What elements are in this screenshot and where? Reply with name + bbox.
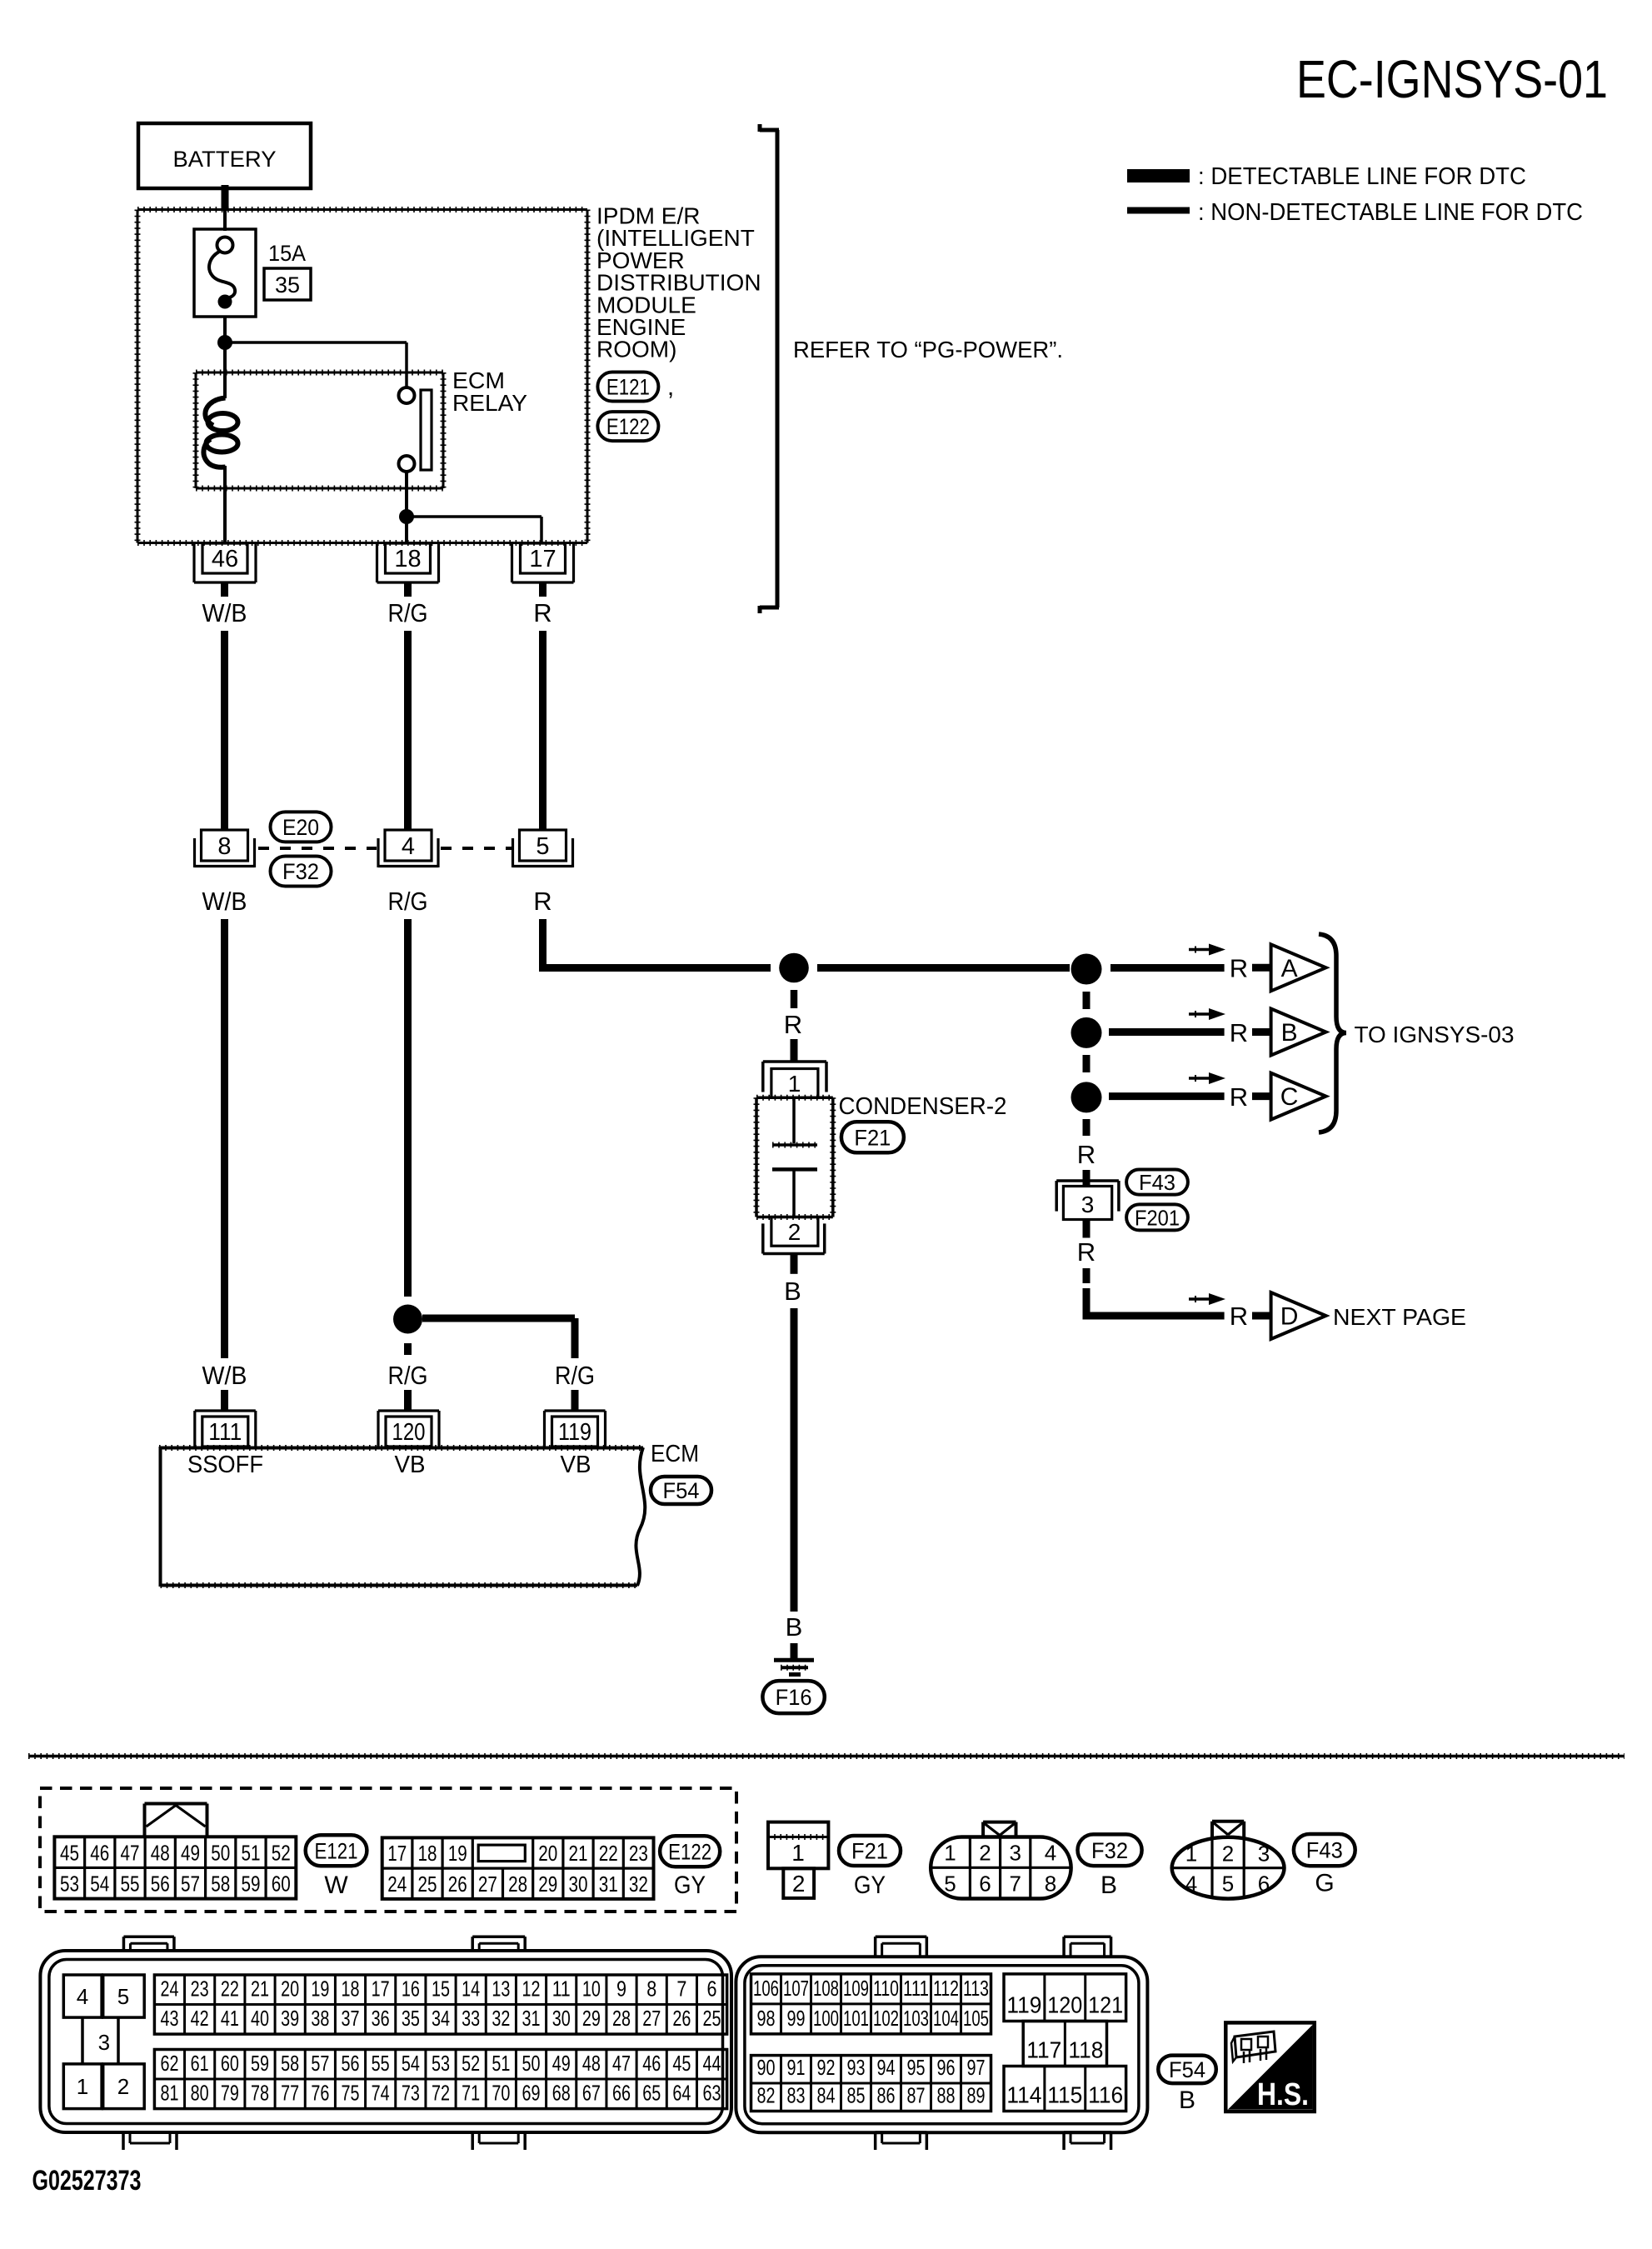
- svg-text:R: R: [533, 598, 551, 627]
- svg-text:47: 47: [121, 1840, 140, 1865]
- svg-text:26: 26: [672, 2006, 691, 2031]
- svg-text:B: B: [1281, 1019, 1298, 1047]
- connector face F43: [1172, 1822, 1285, 1899]
- svg-text:101: 101: [843, 2006, 869, 2031]
- junction at relay output: [399, 509, 414, 524]
- svg-text:41: 41: [221, 2006, 239, 2031]
- label SSOFF: [187, 1452, 263, 1478]
- svg-text:14: 14: [462, 1977, 480, 2002]
- svg-text:66: 66: [612, 2081, 631, 2106]
- svg-text:1: 1: [77, 2074, 88, 2099]
- svg-text:R: R: [1230, 954, 1248, 983]
- ground ref F16 oval: [762, 1681, 824, 1713]
- svg-text:61: 61: [191, 2051, 209, 2076]
- svg-text:48: 48: [151, 1840, 170, 1865]
- arrow to B: [1189, 1008, 1225, 1020]
- wire stub to pin 120: [404, 1390, 412, 1412]
- svg-text:63: 63: [703, 2081, 721, 2106]
- svg-text:60: 60: [221, 2051, 239, 2076]
- svg-text:R: R: [1230, 1018, 1248, 1047]
- svg-text:VB: VB: [561, 1452, 591, 1478]
- svg-text:F21: F21: [851, 1839, 888, 1864]
- svg-text:G: G: [1315, 1870, 1334, 1897]
- svg-text:119: 119: [1006, 1992, 1041, 2018]
- svg-text:98: 98: [757, 2006, 776, 2031]
- svg-text:65: 65: [642, 2081, 661, 2106]
- svg-text:F54: F54: [1169, 2057, 1205, 2082]
- separator line: [28, 1755, 1625, 1758]
- svg-text:3: 3: [98, 2030, 110, 2055]
- svg-text:4: 4: [1045, 1840, 1056, 1865]
- svg-text:1: 1: [791, 1840, 805, 1866]
- IPDM E/R label text: [596, 203, 761, 362]
- label R at B: [1230, 1018, 1248, 1047]
- svg-text:45: 45: [672, 2051, 691, 2076]
- label GY (F21 color): [854, 1872, 886, 1899]
- svg-text:12: 12: [522, 1977, 541, 2002]
- label R above condenser: [784, 1010, 802, 1039]
- svg-text:46: 46: [212, 546, 238, 572]
- fuse 15A 35: [194, 229, 256, 317]
- svg-text:ECM: ECM: [651, 1441, 699, 1467]
- svg-text:18: 18: [394, 546, 421, 572]
- IPDM E/R box E121/E122: [137, 210, 587, 543]
- svg-text:SSOFF: SSOFF: [187, 1452, 263, 1478]
- connector ref E20 oval: [271, 812, 332, 842]
- wire fuse to junction: [223, 317, 227, 342]
- svg-text:102: 102: [873, 2006, 899, 2031]
- connector E20/F32 pin 8: [195, 830, 255, 867]
- svg-text:53: 53: [432, 2051, 450, 2076]
- IPDM pin 46: [194, 543, 256, 582]
- svg-text:GY: GY: [674, 1872, 706, 1899]
- battery: [138, 123, 311, 188]
- svg-text:93: 93: [847, 2055, 866, 2080]
- svg-text:103: 103: [903, 2006, 929, 2031]
- svg-text:1: 1: [1185, 1842, 1197, 1867]
- svg-text:8: 8: [217, 833, 231, 860]
- svg-text:21: 21: [569, 1841, 588, 1866]
- label B (F32 color): [1101, 1872, 1117, 1899]
- svg-text:29: 29: [582, 2006, 601, 2031]
- dashed connector linkage: [258, 847, 512, 850]
- svg-text:45: 45: [60, 1840, 79, 1865]
- svg-text:95: 95: [907, 2055, 926, 2080]
- svg-text:44: 44: [703, 2051, 721, 2076]
- figure number G02527373: [32, 2165, 142, 2197]
- svg-text:40: 40: [251, 2006, 269, 2031]
- label R/G at ECM pin 119: [555, 1361, 595, 1390]
- dashed wire between junctions (A-B): [1083, 992, 1091, 1009]
- svg-text:8: 8: [1045, 1871, 1056, 1896]
- svg-text:48: 48: [582, 2051, 601, 2076]
- connector E20/F32 pin 5: [513, 830, 573, 867]
- svg-text:7: 7: [1009, 1871, 1021, 1896]
- label W (E121 color): [324, 1872, 348, 1899]
- connector ref F43 oval: [1126, 1170, 1188, 1196]
- label GY (E122 color): [674, 1872, 706, 1899]
- connector ref F21 oval: [841, 1122, 904, 1152]
- wire R/G long run: [404, 919, 412, 1297]
- svg-text:116: 116: [1088, 2082, 1123, 2108]
- title EC-IGNSYS-01: [1296, 49, 1608, 109]
- wire stub above condenser pin 1: [791, 1039, 798, 1062]
- wire relay coil to pin 46: [223, 466, 227, 543]
- svg-text:118: 118: [1068, 2037, 1103, 2063]
- wire R from pin 17: [539, 582, 547, 597]
- svg-text:20: 20: [538, 1841, 557, 1866]
- svg-text:8: 8: [646, 1977, 656, 2002]
- label R at C: [1230, 1082, 1248, 1112]
- svg-text:100: 100: [813, 2006, 839, 2031]
- svg-text:94: 94: [877, 2055, 896, 2080]
- svg-text:69: 69: [522, 2081, 541, 2106]
- svg-text:CONDENSER-2: CONDENSER-2: [839, 1093, 1007, 1120]
- fuse number 35 box: [264, 268, 311, 300]
- svg-text:52: 52: [272, 1840, 291, 1865]
- wire branch to pin 17: [407, 517, 542, 543]
- svg-text:23: 23: [191, 1977, 209, 2002]
- dash above connector 3: [1083, 1170, 1091, 1186]
- svg-text:38: 38: [311, 2006, 329, 2031]
- svg-text:R/G: R/G: [388, 598, 428, 627]
- svg-text:22: 22: [599, 1841, 618, 1866]
- svg-text:5: 5: [1222, 1872, 1234, 1897]
- svg-text:27: 27: [642, 2006, 661, 2031]
- svg-text:109: 109: [843, 1976, 869, 2001]
- svg-text:54: 54: [402, 2051, 420, 2076]
- label B (F54 color): [1179, 2087, 1195, 2114]
- svg-text:18: 18: [418, 1841, 437, 1866]
- dash below label R: [1083, 1268, 1091, 1283]
- svg-text:70: 70: [492, 2081, 510, 2106]
- svg-text:55: 55: [121, 1872, 140, 1897]
- svg-text:24: 24: [160, 1977, 178, 2002]
- label ECM RELAY: [452, 367, 527, 416]
- condenser-2 body F21: [756, 1097, 833, 1217]
- svg-text:R: R: [1077, 1237, 1096, 1267]
- svg-text:91: 91: [787, 2055, 806, 2080]
- junction at fuse output: [217, 335, 232, 350]
- svg-text:87: 87: [907, 2083, 926, 2108]
- svg-text:117: 117: [1026, 2037, 1061, 2063]
- svg-text:7: 7: [676, 1977, 686, 2002]
- svg-text:52: 52: [462, 2051, 480, 2076]
- svg-text:E121: E121: [315, 1838, 358, 1863]
- ECM relay box: [196, 372, 443, 488]
- ECM connector body (right half): [736, 1957, 1147, 2132]
- ECM connector pins 4/5/3/1/2 block: [63, 1975, 144, 2109]
- wire W/B long run: [221, 919, 228, 1358]
- svg-text:24: 24: [387, 1872, 407, 1897]
- connector ref F21 oval (face): [839, 1836, 901, 1866]
- svg-text:120: 120: [392, 1419, 426, 1446]
- svg-text:5: 5: [117, 1984, 129, 2009]
- svg-text:F16: F16: [776, 1685, 812, 1710]
- label NEXT PAGE: [1333, 1304, 1466, 1330]
- svg-text:C: C: [1280, 1083, 1299, 1111]
- svg-text:57: 57: [311, 2051, 329, 2076]
- IPDM pin 17: [512, 543, 574, 582]
- H.S. logo: [1225, 2022, 1315, 2112]
- stub to triangle A: [1252, 964, 1271, 972]
- svg-text:F201: F201: [1135, 1205, 1180, 1230]
- label R at D: [1230, 1302, 1248, 1331]
- svg-text:22: 22: [221, 1977, 239, 2002]
- ECM connector pin grid 90-97 / 82-89: [751, 2055, 991, 2111]
- svg-text:2: 2: [117, 2074, 129, 2099]
- svg-text:106: 106: [753, 1976, 779, 2001]
- svg-text:77: 77: [281, 2081, 299, 2106]
- svg-text:110: 110: [873, 1976, 899, 2001]
- wire battery feed inside IPDM: [223, 209, 227, 231]
- svg-text:W/B: W/B: [202, 1361, 247, 1390]
- svg-text:86: 86: [877, 2083, 896, 2108]
- svg-text:108: 108: [813, 1976, 839, 2001]
- svg-text:92: 92: [817, 2055, 836, 2080]
- relay coil: [203, 398, 237, 467]
- svg-text:R: R: [1230, 1082, 1248, 1112]
- svg-text:97: 97: [967, 2055, 986, 2080]
- svg-text:53: 53: [60, 1872, 79, 1897]
- svg-text:W/B: W/B: [202, 598, 247, 627]
- svg-text:43: 43: [160, 2006, 178, 2031]
- svg-text:35: 35: [402, 2006, 420, 2031]
- svg-text:78: 78: [251, 2081, 269, 2106]
- svg-text:R: R: [1230, 1302, 1248, 1331]
- svg-text:GY: GY: [854, 1872, 886, 1899]
- svg-text:85: 85: [847, 2083, 866, 2108]
- connector ref E121 oval (face): [306, 1835, 367, 1866]
- svg-text:31: 31: [522, 2006, 541, 2031]
- svg-text:55: 55: [372, 2051, 390, 2076]
- dashed wire between junctions (B-C): [1083, 1055, 1091, 1072]
- svg-text:50: 50: [211, 1840, 230, 1865]
- page connector triangle C: [1271, 1073, 1326, 1120]
- svg-text:1: 1: [944, 1840, 956, 1865]
- svg-text:13: 13: [492, 1977, 510, 2002]
- junction C: [1071, 1082, 1102, 1112]
- brace to IGNSYS-03: [1319, 934, 1346, 1132]
- svg-text:F32: F32: [282, 859, 319, 884]
- svg-text:88: 88: [937, 2083, 956, 2108]
- label W/B: [202, 598, 247, 627]
- label VB (120): [395, 1452, 426, 1478]
- svg-text:32: 32: [629, 1872, 648, 1897]
- connector face E122: [382, 1837, 654, 1899]
- svg-text:11: 11: [552, 1977, 571, 2002]
- note REFER TO PG-POWER: [793, 337, 1063, 362]
- svg-text:R: R: [1077, 1140, 1096, 1169]
- svg-text:90: 90: [757, 2055, 776, 2080]
- svg-text:26: 26: [448, 1872, 467, 1897]
- svg-text:,: ,: [667, 373, 674, 401]
- svg-text:REFER TO “PG-POWER”.: REFER TO “PG-POWER”.: [793, 337, 1063, 362]
- svg-text:46: 46: [90, 1840, 109, 1865]
- junction R bus / coil column: [1071, 954, 1102, 985]
- label R above F43 connector: [1077, 1140, 1096, 1169]
- dashed wire below junction C: [1083, 1119, 1091, 1136]
- svg-text:60: 60: [272, 1872, 291, 1897]
- svg-text:29: 29: [538, 1872, 557, 1897]
- wire stub to pin 111: [221, 1390, 228, 1412]
- connector E20/F32 pin 4: [378, 830, 438, 867]
- stub to triangle C: [1252, 1092, 1271, 1100]
- condenser pin 1: [763, 1062, 826, 1097]
- svg-text:R: R: [533, 887, 551, 916]
- ECM connector bottom tabs: [123, 2132, 1111, 2150]
- connector ref F54 oval: [651, 1477, 711, 1504]
- fuse value 15A: [268, 241, 306, 266]
- connector face F32: [931, 1822, 1071, 1899]
- svg-text:119: 119: [558, 1419, 591, 1446]
- relay contact circles: [399, 387, 415, 472]
- svg-text:114: 114: [1006, 2082, 1041, 2108]
- svg-text:73: 73: [402, 2081, 420, 2106]
- svg-text:17: 17: [529, 546, 556, 572]
- label W/B at ECM: [202, 1361, 247, 1390]
- wire R to triangle D: [1083, 1288, 1225, 1316]
- svg-text:76: 76: [311, 2081, 329, 2106]
- label R/G below pin 4: [388, 887, 428, 916]
- legend: detectable line for DTC: [1127, 163, 1526, 190]
- svg-text:37: 37: [342, 2006, 360, 2031]
- label TO IGNSYS-03: [1355, 1022, 1515, 1047]
- svg-text:56: 56: [151, 1872, 170, 1897]
- condenser pin 2: [763, 1217, 825, 1254]
- label ECM: [651, 1441, 699, 1467]
- svg-text:2: 2: [792, 1871, 806, 1897]
- svg-text:113: 113: [963, 1976, 989, 2001]
- svg-text:82: 82: [757, 2083, 776, 2108]
- wire stub below condenser: [791, 1255, 798, 1274]
- ECM box F54: [159, 1447, 645, 1587]
- svg-text:: NON-DETECTABLE LINE FOR DTC: : NON-DETECTABLE LINE FOR DTC: [1198, 199, 1583, 226]
- svg-text:120: 120: [1047, 1992, 1082, 2018]
- junction R bus / condenser: [779, 953, 809, 983]
- label R at A: [1230, 954, 1248, 983]
- label R below pin 5: [533, 887, 551, 916]
- svg-text:R/G: R/G: [555, 1361, 595, 1390]
- svg-text:64: 64: [672, 2081, 691, 2106]
- svg-text:58: 58: [211, 1872, 230, 1897]
- svg-text:96: 96: [937, 2055, 956, 2080]
- wire R/G down to E20 connector: [404, 631, 412, 830]
- svg-text:18: 18: [342, 1977, 360, 2002]
- dashed group box E121/E122: [40, 1788, 736, 1912]
- svg-text:105: 105: [963, 2006, 989, 2031]
- label CONDENSER-2: [839, 1093, 1007, 1120]
- svg-text:R: R: [784, 1010, 802, 1039]
- junction B: [1071, 1017, 1102, 1048]
- svg-text:5: 5: [944, 1871, 956, 1896]
- svg-text:4: 4: [1185, 1872, 1197, 1897]
- svg-text:17: 17: [387, 1841, 407, 1866]
- svg-text:F32: F32: [1091, 1838, 1128, 1863]
- page connector triangle D: [1271, 1292, 1326, 1339]
- wire R to corner: [539, 919, 547, 968]
- svg-text:51: 51: [241, 1840, 260, 1865]
- svg-text:6: 6: [979, 1871, 991, 1896]
- svg-text:56: 56: [342, 2051, 360, 2076]
- svg-text:6: 6: [707, 1977, 717, 2002]
- svg-text:111: 111: [903, 1976, 929, 2001]
- svg-text:17: 17: [372, 1977, 390, 2002]
- svg-text:47: 47: [612, 2051, 631, 2076]
- svg-text:15A: 15A: [268, 241, 306, 266]
- svg-text:19: 19: [448, 1841, 467, 1866]
- svg-text:49: 49: [181, 1840, 200, 1865]
- arrow to D: [1189, 1293, 1225, 1305]
- connector ref F54 oval (face): [1158, 2056, 1216, 2084]
- svg-text:111: 111: [208, 1419, 242, 1446]
- svg-text:W/B: W/B: [202, 887, 247, 916]
- stub to triangle B: [1252, 1028, 1271, 1036]
- svg-text:: DETECTABLE LINE FOR DTC: : DETECTABLE LINE FOR DTC: [1198, 163, 1526, 190]
- wire W/B down to E20 connector: [221, 631, 228, 830]
- ECM connector pin grid 62-44 / 81-63: [154, 2050, 726, 2109]
- wire R/G from pin 18: [404, 582, 412, 597]
- svg-text:G02527373: G02527373: [32, 2165, 142, 2197]
- dashed wire junction to condenser: [791, 990, 798, 1008]
- svg-text:75: 75: [342, 2081, 360, 2106]
- svg-text:2: 2: [979, 1840, 991, 1865]
- label VB (119): [561, 1452, 591, 1478]
- svg-text:42: 42: [191, 2006, 209, 2031]
- svg-text:104: 104: [933, 2006, 959, 2031]
- svg-text:25: 25: [703, 2006, 721, 2031]
- svg-text:107: 107: [783, 1976, 809, 2001]
- wire relay contact to pin 18: [405, 472, 408, 543]
- svg-text:35: 35: [275, 272, 300, 297]
- svg-text:16: 16: [402, 1977, 420, 2002]
- ECM connector body (left half): [40, 1951, 731, 2132]
- connector ref F201 oval: [1126, 1204, 1188, 1230]
- svg-text:R/G: R/G: [388, 1361, 428, 1390]
- svg-text:TO IGNSYS-03: TO IGNSYS-03: [1355, 1022, 1515, 1047]
- ECM pin 119: [545, 1411, 606, 1447]
- svg-text:E122: E122: [668, 1839, 711, 1864]
- label W/B below pin 8: [202, 887, 247, 916]
- svg-text:57: 57: [181, 1872, 200, 1897]
- connector ref F43 oval (face): [1294, 1834, 1355, 1866]
- arrow to C: [1189, 1072, 1225, 1084]
- svg-text:RELAY: RELAY: [452, 390, 527, 416]
- svg-text:28: 28: [508, 1872, 527, 1897]
- svg-text:84: 84: [817, 2083, 836, 2108]
- svg-text:54: 54: [90, 1872, 109, 1897]
- legend: non-detectable line for DTC: [1127, 199, 1583, 226]
- svg-text:4: 4: [402, 833, 415, 860]
- svg-text:121: 121: [1088, 1992, 1123, 2018]
- connector face F21: [768, 1822, 828, 1898]
- junction R/G branch: [393, 1305, 422, 1334]
- svg-text:3: 3: [1081, 1192, 1095, 1217]
- svg-text:32: 32: [492, 2006, 510, 2031]
- page connector triangle A: [1271, 944, 1326, 991]
- svg-text:112: 112: [933, 1976, 959, 2001]
- svg-text:1: 1: [788, 1071, 801, 1097]
- svg-text:74: 74: [372, 2081, 390, 2106]
- IPDM pin 18: [377, 543, 439, 582]
- svg-text:EC-IGNSYS-01: EC-IGNSYS-01: [1296, 49, 1608, 109]
- svg-text:27: 27: [478, 1872, 497, 1897]
- svg-text:5: 5: [536, 833, 549, 860]
- wire R/G branch to pin 119: [422, 1318, 575, 1358]
- label B at ground: [786, 1612, 803, 1642]
- svg-text:2: 2: [1222, 1842, 1234, 1867]
- svg-text:30: 30: [569, 1872, 588, 1897]
